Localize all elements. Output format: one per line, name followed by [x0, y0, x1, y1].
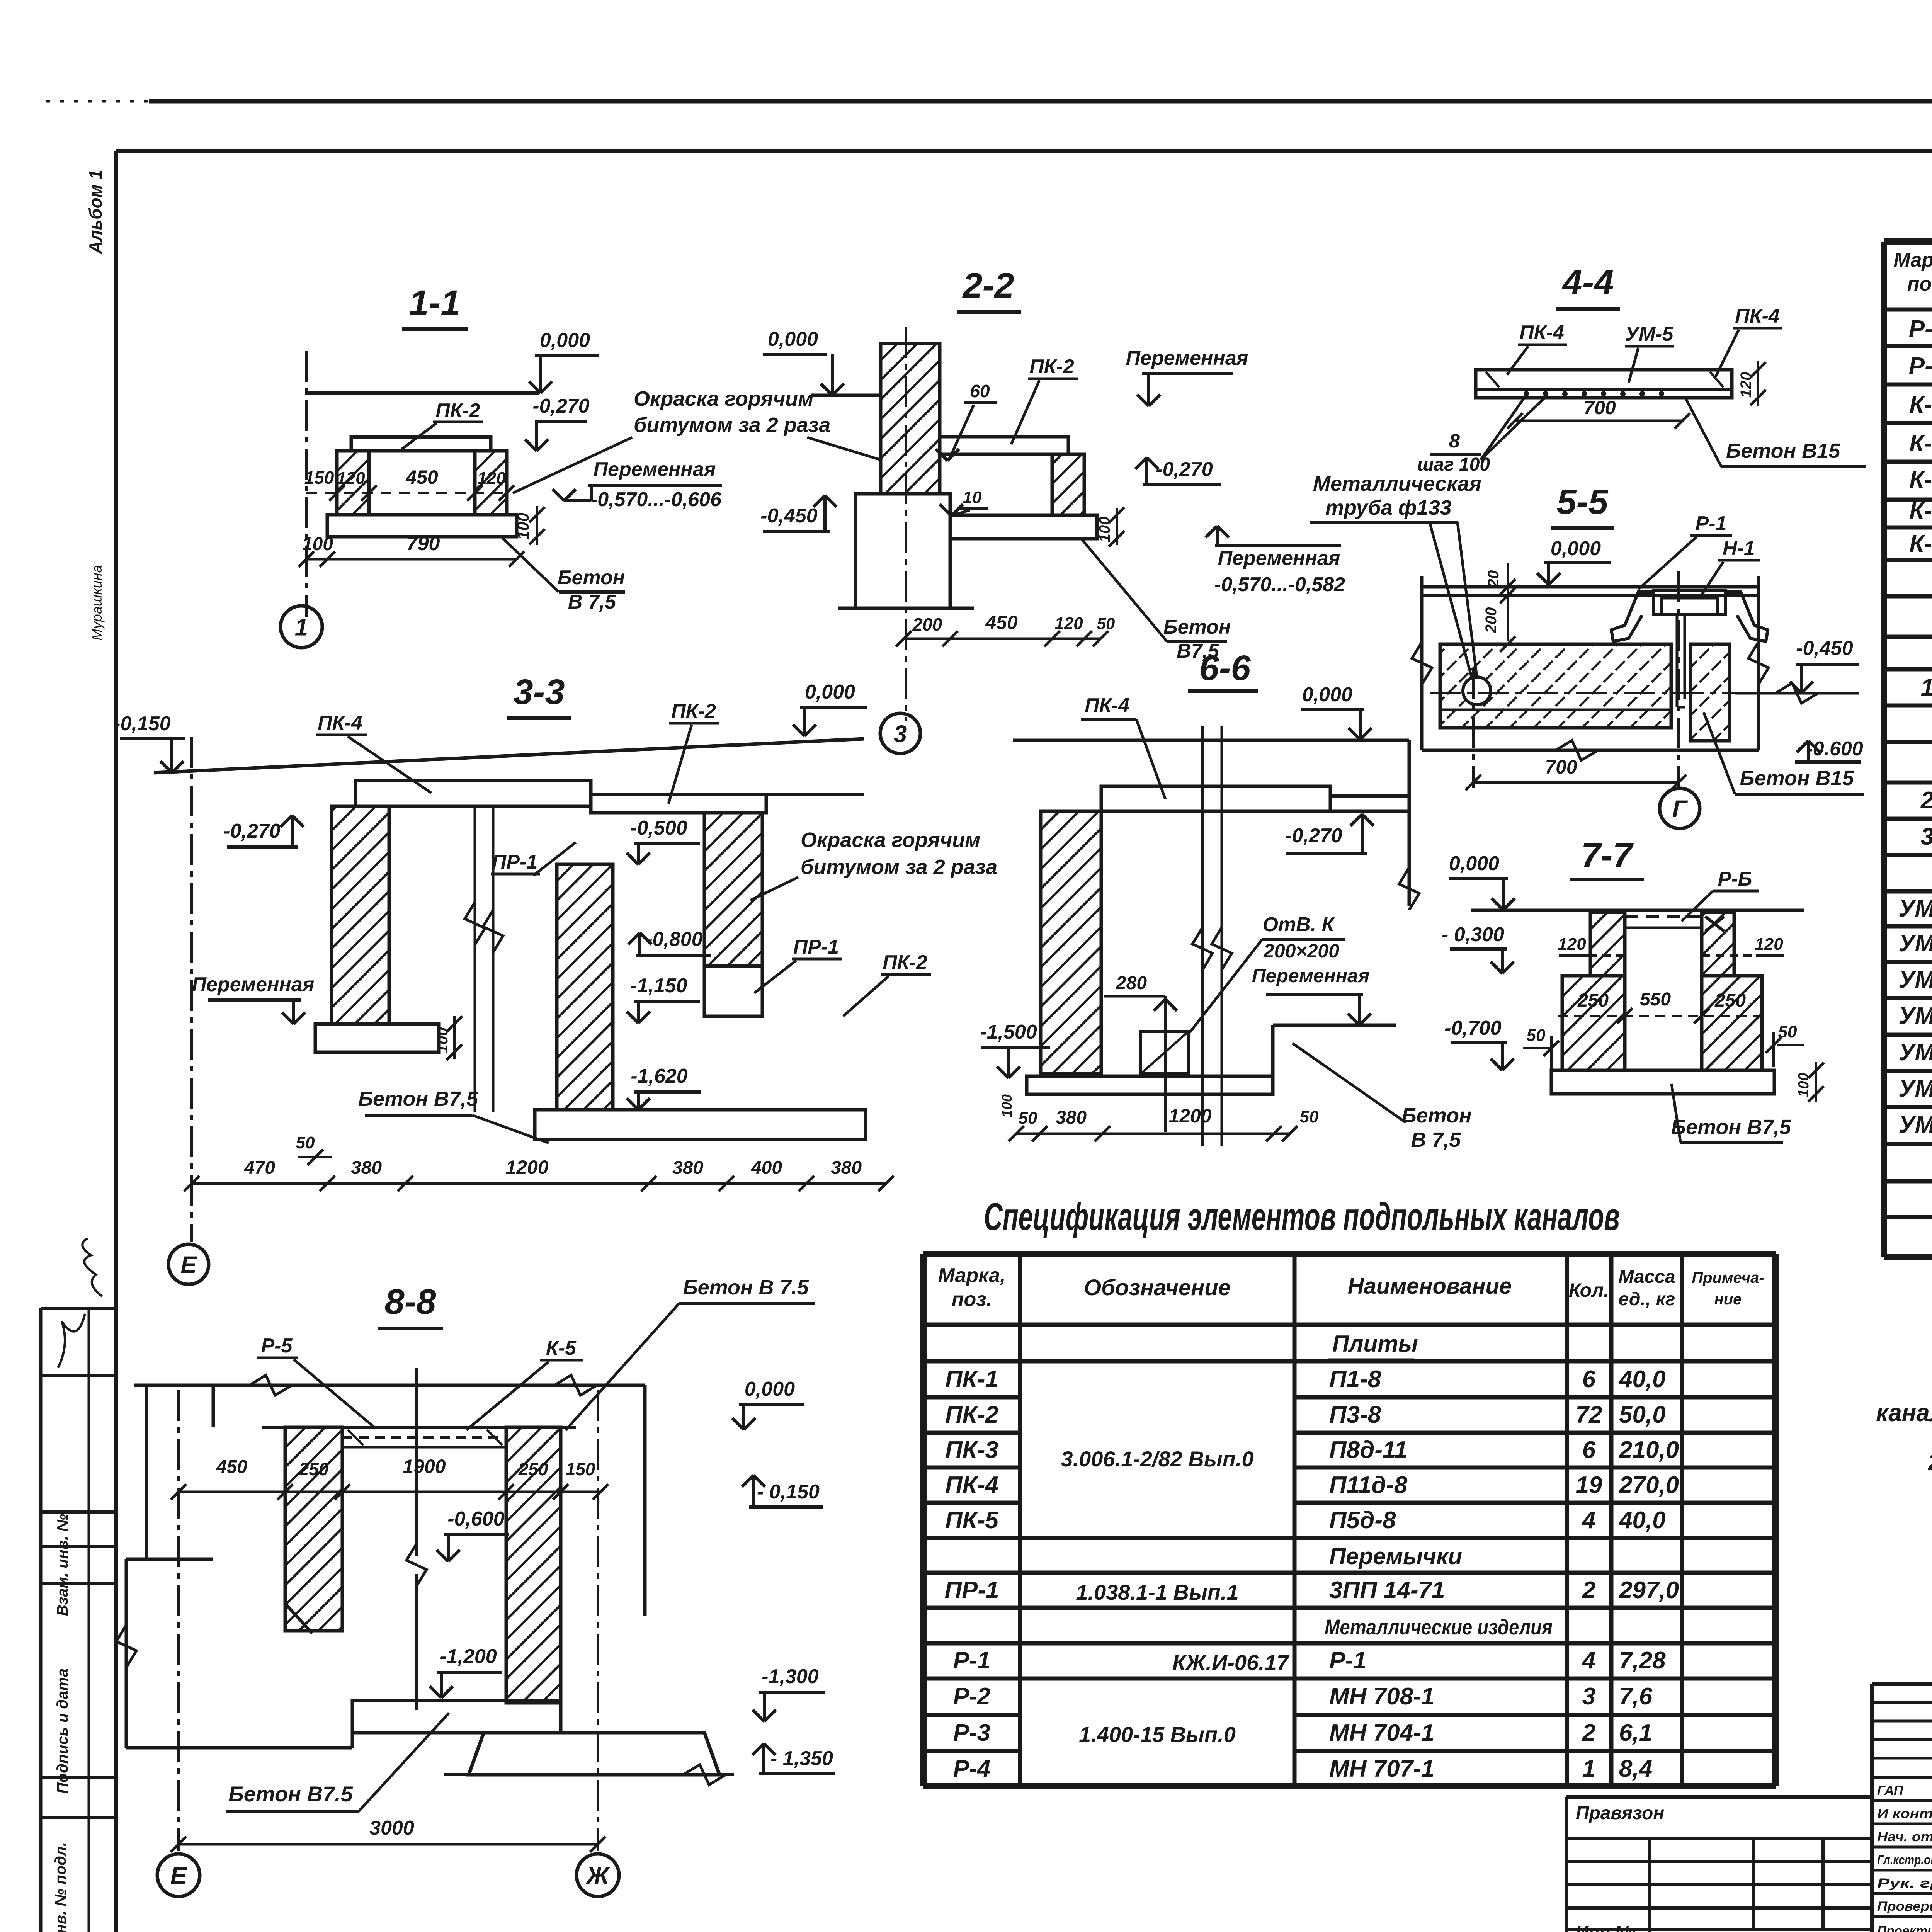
dim line 200 450 120 50 (2-2) [904, 638, 1100, 640]
svg-text:Масса: Масса [1618, 1267, 1675, 1287]
svg-text:150: 150 [566, 1459, 595, 1479]
svg-text:Бетон В7,5: Бетон В7,5 [358, 1087, 478, 1111]
svg-text:УМ-5: УМ-5 [1625, 323, 1674, 345]
svg-text:210,0: 210,0 [1619, 1437, 1679, 1463]
svg-text:ПК-4: ПК-4 [318, 712, 362, 734]
svg-text:790: 790 [406, 532, 440, 555]
svg-text:Бетон В15: Бетон В15 [1740, 767, 1854, 790]
axis circle 3 [880, 713, 920, 753]
svg-text:2: 2 [1920, 787, 1932, 814]
svg-text:380: 380 [1056, 1107, 1087, 1128]
svg-text:Н-1: Н-1 [1723, 537, 1755, 560]
axis circle 1 [281, 606, 322, 648]
svg-text:2. Расход арматуры на армопере: 2. Расход арматуры на армоперемычки ф6-А… [1928, 1449, 1932, 1476]
svg-text:270,0: 270,0 [1619, 1472, 1679, 1498]
svg-text:7-7: 7-7 [1581, 836, 1634, 875]
svg-text:0,000: 0,000 [1449, 852, 1499, 875]
svg-text:Р-2: Р-2 [953, 1683, 990, 1710]
svg-text:Инв. № подл.: Инв. № подл. [52, 1842, 69, 1932]
svg-text:К-4: К-4 [1909, 497, 1932, 524]
svg-text:Мурашкина: Мурашкина [89, 565, 105, 640]
svg-text:Подпись и дата: Подпись и дата [54, 1668, 71, 1794]
svg-text:Бетон В15: Бетон В15 [1726, 439, 1840, 463]
bottom slab (6-6) [1027, 1076, 1273, 1094]
svg-text:3: 3 [1582, 1683, 1595, 1710]
column axis (2-2) [905, 327, 907, 721]
right wall hatched (1-1) [475, 451, 507, 515]
svg-text:-0,570...-0,606: -0,570...-0,606 [591, 488, 722, 511]
bottom dim (6-6) [1016, 1133, 1290, 1135]
axis line E (3-3) [190, 737, 193, 1242]
svg-text:Р-Б: Р-Б [1718, 868, 1752, 890]
left hook clamp (5-5) [1611, 592, 1653, 641]
svg-text:-0,270: -0,270 [1156, 458, 1213, 481]
svg-text:Ж: Ж [585, 1862, 611, 1889]
svg-text:50: 50 [1300, 1107, 1319, 1126]
pipe axis (5-5) [1430, 692, 1735, 694]
svg-text:297,0: 297,0 [1619, 1577, 1679, 1604]
svg-text:10: 10 [963, 488, 982, 507]
svg-text:Переменная: Переменная [1126, 347, 1248, 369]
svg-text:380: 380 [672, 1158, 703, 1178]
svg-text:Е: Е [180, 1252, 197, 1278]
svg-text:Альбом 1: Альбом 1 [85, 170, 105, 254]
svg-text:И контр.: И контр. [1877, 1806, 1932, 1821]
svg-text:8: 8 [1449, 430, 1460, 452]
svg-text:4: 4 [1582, 1647, 1595, 1674]
inner level dashed (1-1) [306, 492, 507, 494]
svg-text:0,000: 0,000 [745, 1378, 795, 1400]
svg-text:6: 6 [1582, 1366, 1596, 1393]
axis E (8-8) [177, 1390, 180, 1851]
svg-text:П5д-8: П5д-8 [1329, 1507, 1396, 1534]
svg-text:Р-1: Р-1 [1696, 512, 1727, 535]
svg-text:УМ-1: УМ-1 [1899, 895, 1932, 922]
svg-text:Е: Е [170, 1862, 188, 1889]
svg-text:19: 19 [1576, 1472, 1602, 1498]
svg-text:ПК-2: ПК-2 [671, 700, 716, 723]
svg-text:0,000: 0,000 [540, 329, 590, 352]
svg-text:Инв.№: Инв.№ [1576, 1922, 1635, 1932]
svg-text:Р-5: Р-5 [1909, 316, 1932, 342]
svg-text:100: 100 [514, 513, 532, 540]
right wall hatched (2-2) [1052, 454, 1084, 515]
svg-text:ед., кг: ед., кг [1619, 1289, 1675, 1310]
svg-text:72: 72 [1576, 1401, 1602, 1428]
svg-text:Наименование: Наименование [1348, 1274, 1512, 1299]
svg-text:40,0: 40,0 [1618, 1366, 1666, 1393]
pipe circle (5-5) [1463, 677, 1491, 705]
svg-text:УМ-6: УМ-6 [1899, 1075, 1932, 1102]
svg-text:7,28: 7,28 [1619, 1647, 1666, 1674]
svg-text:МН 707-1: МН 707-1 [1329, 1755, 1434, 1782]
plate R-B dashed (7-7) [1625, 915, 1702, 918]
svg-text:Рук. гр.: Рук. гр. [1877, 1876, 1932, 1891]
svg-text:250: 250 [1577, 990, 1609, 1011]
svg-text:Спецификация элементов подполь: Спецификация элементов подпольных канало… [984, 1195, 1620, 1238]
svg-text:120: 120 [1755, 935, 1783, 954]
svg-text:ПК-2: ПК-2 [883, 951, 927, 974]
svg-text:Примеча-: Примеча- [1692, 1269, 1764, 1286]
svg-text:20: 20 [1485, 570, 1502, 588]
plate PK-2 (3-3) [591, 794, 766, 813]
svg-text:К-5: К-5 [1909, 531, 1932, 557]
svg-text:Р-3: Р-3 [953, 1719, 990, 1746]
svg-text:К-1: К-1 [1909, 391, 1932, 418]
svg-text:Обозначение: Обозначение [1084, 1275, 1231, 1300]
svg-text:Бетон: Бетон [1163, 616, 1231, 638]
svg-text:-0,800: -0,800 [646, 928, 703, 951]
svg-text:поз.: поз. [1907, 273, 1932, 295]
svg-text:Гл.кстр.отд: Гл.кстр.отд [1877, 1853, 1932, 1867]
svg-text:К-2: К-2 [1909, 430, 1932, 457]
right step (6-6) [1273, 1024, 1396, 1027]
svg-text:-0,500: -0,500 [630, 817, 687, 839]
top plate PK-2 (1-1) [351, 437, 491, 451]
svg-text:УМ-2: УМ-2 [1899, 930, 1932, 957]
svg-text:-0,700: -0,700 [1444, 1017, 1502, 1039]
svg-text:Перемычки: Перемычки [1329, 1543, 1462, 1569]
svg-text:3000: 3000 [369, 1817, 414, 1839]
svg-text:120: 120 [477, 469, 506, 488]
svg-text:60: 60 [970, 381, 990, 401]
svg-text:ПК-4: ПК-4 [945, 1472, 998, 1498]
svg-text:3.006.1-2/82 Вып.0: 3.006.1-2/82 Вып.0 [1061, 1447, 1253, 1471]
svg-text:50: 50 [1527, 1026, 1546, 1045]
svg-text:Окраска горячим: Окраска горячим [634, 387, 813, 410]
svg-text:поз.: поз. [952, 1288, 992, 1311]
svg-text:120: 120 [1054, 614, 1083, 633]
svg-text:1.038.1-1 Вып.1: 1.038.1-1 Вып.1 [1076, 1580, 1238, 1604]
svg-text:250: 250 [518, 1459, 548, 1479]
svg-text:УМ-3: УМ-3 [1899, 966, 1932, 993]
svg-text:380: 380 [831, 1158, 862, 1178]
svg-text:2-2: 2-2 [962, 266, 1014, 305]
svg-text:МН 708-1: МН 708-1 [1329, 1683, 1434, 1710]
anchor line K-1 (5-5) [1676, 614, 1679, 707]
ground line 1-1 [305, 391, 539, 395]
svg-text:Р-6: Р-6 [1909, 353, 1932, 379]
svg-text:Бетон: Бетон [1401, 1104, 1471, 1127]
right table grid horizontals [1884, 238, 1932, 245]
svg-text:4: 4 [1582, 1507, 1595, 1534]
svg-text:ние: ние [1714, 1291, 1742, 1308]
svg-text:ОтВ. К: ОтВ. К [1262, 913, 1335, 936]
svg-text:В 7,5: В 7,5 [1411, 1128, 1461, 1151]
svg-text:Правязон: Правязон [1576, 1803, 1664, 1823]
top double line (5-5) [1422, 585, 1759, 589]
right edge line (6-6) [1408, 740, 1411, 906]
svg-text:Р-1: Р-1 [953, 1647, 990, 1674]
wall break lines (3-3) [474, 806, 476, 1112]
svg-text:200: 200 [1483, 607, 1500, 634]
svg-text:Переменная: Переменная [594, 458, 716, 481]
svg-text:7,6: 7,6 [1619, 1683, 1653, 1710]
svg-text:УМ-7: УМ-7 [1899, 1112, 1932, 1138]
svg-text:-0.600: -0.600 [1806, 738, 1863, 760]
svg-text:Г: Г [1672, 796, 1688, 822]
svg-text:3ПП 14-71: 3ПП 14-71 [1329, 1577, 1445, 1604]
svg-text:6-6: 6-6 [1199, 648, 1251, 688]
svg-text:ПК-4: ПК-4 [1085, 694, 1129, 717]
right hook clamp (5-5) [1726, 592, 1768, 641]
title block signature table [1870, 1684, 1874, 1932]
top plate (6-6) [1101, 786, 1330, 811]
svg-text:ПК-3: ПК-3 [945, 1437, 998, 1463]
svg-text:К-3: К-3 [1909, 466, 1932, 493]
right wall line (8-8) [643, 1385, 647, 1616]
svg-text:Марка,: Марка, [1894, 249, 1932, 271]
svg-text:3: 3 [1921, 823, 1932, 850]
svg-text:1: 1 [1582, 1755, 1595, 1782]
svg-text:8,4: 8,4 [1619, 1755, 1652, 1782]
svg-text:Плиты: Плиты [1332, 1331, 1418, 1357]
svg-text:50: 50 [1019, 1109, 1037, 1128]
svg-text:250: 250 [299, 1459, 329, 1479]
svg-text:-0,570...-0,582: -0,570...-0,582 [1214, 573, 1345, 596]
foundation block (2-2) [855, 494, 950, 608]
svg-text:-1,150: -1,150 [630, 975, 687, 997]
svg-text:ПК-4: ПК-4 [1735, 305, 1780, 327]
svg-text:битумом за 2 раза: битумом за 2 раза [634, 413, 830, 437]
sheet border frame [46, 100, 149, 103]
svg-text:700: 700 [1545, 756, 1577, 778]
svg-text:УМ-4: УМ-4 [1899, 1003, 1932, 1029]
svg-text:0,000: 0,000 [1551, 537, 1601, 560]
svg-text:1-1: 1-1 [409, 283, 461, 323]
right wall hatched (3-3) [704, 813, 762, 966]
svg-text:40,0: 40,0 [1618, 1507, 1666, 1534]
middle break pair (6-6) [1201, 726, 1204, 1146]
svg-text:Взам. инв. №: Взам. инв. № [54, 1514, 71, 1616]
svg-text:1200: 1200 [1168, 1105, 1211, 1127]
dim line 100 790 (1-1) [306, 558, 517, 561]
svg-text:ГАП: ГАП [1877, 1783, 1904, 1798]
svg-text:3: 3 [894, 721, 907, 747]
svg-text:Р-4: Р-4 [953, 1755, 990, 1782]
svg-text:100: 100 [302, 534, 333, 554]
svg-text:150: 150 [304, 468, 334, 488]
svg-text:ПР-1: ПР-1 [944, 1577, 999, 1604]
plate PK-2 (2-2) [940, 437, 1068, 454]
upper walls (7-7) [1590, 912, 1625, 976]
svg-text:-1,300: -1,300 [762, 1665, 819, 1688]
right table grid verticals [1881, 241, 1887, 1257]
svg-text:Проверил: Проверил [1877, 1899, 1932, 1914]
ground line (6-6) [1013, 739, 1409, 742]
svg-text:К-5: К-5 [546, 1337, 577, 1359]
lower walls (7-7) [1562, 976, 1625, 1070]
svg-text:П8д-11: П8д-11 [1329, 1437, 1407, 1463]
svg-text:ПК-5: ПК-5 [945, 1507, 999, 1534]
svg-text:МН 704-1: МН 704-1 [1329, 1719, 1434, 1746]
svg-text:280: 280 [1116, 973, 1147, 993]
svg-text:-1,620: -1,620 [631, 1065, 688, 1087]
svg-text:Бетон: Бетон [558, 566, 625, 589]
cover plates row (8-8) [262, 1426, 576, 1429]
svg-text:450: 450 [405, 466, 438, 488]
bottom dim line (3-3) [192, 1182, 886, 1185]
section 1-1 axis line [305, 351, 308, 617]
dim 700 (4-4) [1515, 420, 1682, 422]
ground line bottom (5-5) [1422, 749, 1759, 752]
bottom slab (1-1) [327, 515, 517, 537]
ground line left of column (2-2) [811, 394, 881, 397]
left bottom slab (3-3) [315, 1024, 439, 1052]
svg-text:Металлические изделия: Металлические изделия [1325, 1615, 1553, 1639]
svg-text:-1,500: -1,500 [980, 1021, 1037, 1043]
ground line (7-7) [1471, 909, 1804, 912]
slab hatched B15 (5-5) [1440, 644, 1671, 728]
svg-text:120: 120 [337, 469, 365, 488]
svg-text:ПК-2: ПК-2 [945, 1401, 998, 1428]
svg-text:Р-5: Р-5 [261, 1335, 293, 1357]
slab 4-4 [1476, 370, 1732, 398]
svg-text:8-8: 8-8 [385, 1282, 437, 1321]
svg-text:Нач. отд.: Нач. отд. [1877, 1830, 1932, 1844]
svg-text:Бетон В 7.5: Бетон В 7.5 [683, 1276, 809, 1299]
svg-text:ПК-4: ПК-4 [1519, 321, 1564, 344]
opening box (6-6) [1141, 1031, 1189, 1074]
peremennaya level 2 (2-2) [1216, 526, 1219, 546]
left wall hatched (1-1) [337, 451, 369, 515]
svg-text:380: 380 [351, 1158, 382, 1178]
svg-text:1.400-15 Вып.0: 1.400-15 Вып.0 [1079, 1722, 1236, 1747]
left wall hatched (6-6) [1041, 811, 1101, 1074]
dim 700 (5-5) [1473, 781, 1679, 784]
svg-text:4-4: 4-4 [1562, 263, 1614, 302]
svg-text:120: 120 [1558, 935, 1586, 954]
svg-text:1: 1 [1921, 674, 1932, 701]
svg-text:- 1,350: - 1,350 [770, 1747, 833, 1770]
title block left extension [1566, 1795, 1872, 1799]
left hatched wall (8-8) [285, 1427, 342, 1631]
svg-text:-0,450: -0,450 [760, 505, 818, 527]
svg-text:Бетон В7.5: Бетон В7.5 [228, 1782, 353, 1806]
column hatched (2-2) [881, 344, 940, 494]
middle wall hatched (3-3) [557, 864, 613, 1110]
svg-text:0,000: 0,000 [1302, 684, 1352, 706]
svg-text:-1,200: -1,200 [440, 1645, 497, 1668]
bottom slab (7-7) [1551, 1070, 1774, 1094]
svg-text:200×200: 200×200 [1263, 940, 1339, 962]
svg-text:каналов и выборку стали: каналов и выборку стали смотри лист 9. [1876, 1399, 1932, 1427]
svg-text:ПК-2: ПК-2 [1029, 355, 1074, 378]
svg-text:В 7,5: В 7,5 [568, 591, 616, 613]
svg-text:Р-1: Р-1 [1329, 1647, 1366, 1674]
bottom slab (2-2) [950, 515, 1097, 539]
svg-text:2: 2 [1582, 1577, 1595, 1604]
right bottom slab (3-3) [535, 1110, 866, 1139]
svg-text:0,000: 0,000 [768, 328, 818, 350]
svg-text:ПК-1: ПК-1 [945, 1366, 998, 1393]
plate PK-4 (3-3) [355, 781, 591, 806]
svg-text:50: 50 [1097, 614, 1115, 633]
svg-text:6,1: 6,1 [1619, 1719, 1652, 1746]
svg-text:Кол.: Кол. [1569, 1279, 1609, 1301]
svg-text:450: 450 [216, 1457, 247, 1477]
svg-text:ПР-1: ПР-1 [793, 936, 839, 958]
svg-text:Марка,: Марка, [938, 1264, 1006, 1287]
svg-text:3-3: 3-3 [514, 672, 565, 712]
right wall hatched B15 (5-5) [1690, 644, 1730, 741]
svg-text:битумом за 2 раза: битумом за 2 раза [801, 855, 997, 879]
svg-text:1900: 1900 [403, 1456, 446, 1477]
svg-text:250: 250 [1714, 990, 1746, 1011]
svg-text:- 0,150: - 0,150 [757, 1481, 820, 1503]
svg-text:-0,270: -0,270 [1285, 825, 1342, 847]
svg-text:П11д-8: П11д-8 [1329, 1472, 1408, 1498]
channel cover plate R-1 (5-5) [1654, 590, 1725, 614]
svg-text:-0,270: -0,270 [532, 395, 590, 417]
svg-text:50: 50 [296, 1133, 315, 1152]
axis Zh (8-8) [597, 1390, 599, 1851]
svg-text:П1-8: П1-8 [1329, 1366, 1381, 1393]
channel floor slab (8-8) [352, 1701, 561, 1733]
svg-text:470: 470 [244, 1158, 275, 1178]
ceiling line (8-8) [134, 1384, 645, 1387]
svg-text:УМ-5: УМ-5 [1899, 1039, 1932, 1066]
svg-text:Переменная: Переменная [1252, 965, 1370, 986]
svg-text:ПК-2: ПК-2 [435, 400, 480, 422]
svg-text:Металлическая: Металлическая [1313, 472, 1481, 495]
svg-text:труба ф133: труба ф133 [1325, 496, 1452, 519]
svg-text:50,0: 50,0 [1619, 1401, 1666, 1428]
svg-text:1: 1 [295, 614, 308, 641]
svg-text:КЖ.И-06.17: КЖ.И-06.17 [1172, 1650, 1290, 1675]
svg-text:100: 100 [999, 1094, 1015, 1117]
svg-text:5-5: 5-5 [1557, 482, 1609, 522]
svg-text:ПР-1: ПР-1 [492, 851, 537, 873]
bottom strip (5-5) [1440, 709, 1671, 711]
level -0,600 (5-5) [1797, 741, 1808, 752]
svg-text:6: 6 [1582, 1437, 1596, 1463]
svg-text:-0,150: -0,150 [114, 713, 171, 735]
svg-text:-0,450: -0,450 [1796, 637, 1853, 660]
svg-text:2: 2 [1582, 1719, 1595, 1746]
pipe axis center (8-8) [415, 1368, 418, 1556]
right hatched wall (8-8) [506, 1427, 561, 1703]
left wall hatched (3-3) [332, 806, 389, 1024]
svg-text:0,000: 0,000 [805, 681, 855, 703]
svg-text:550: 550 [1640, 989, 1671, 1010]
svg-text:П3-8: П3-8 [1329, 1401, 1381, 1428]
svg-text:Переменная: Переменная [192, 973, 315, 996]
svg-text:- 0,300: - 0,300 [1442, 923, 1504, 946]
sloped ground line (3-3) [154, 739, 864, 773]
left margin stamp column [39, 1308, 43, 1932]
svg-text:Окраска горячим: Окраска горячим [801, 828, 980, 852]
svg-text:700: 700 [1583, 397, 1616, 418]
central table grid [920, 1254, 927, 1786]
left wall (8-8) [145, 1385, 148, 1559]
svg-text:Бетон В7,5: Бетон В7,5 [1671, 1116, 1791, 1139]
axis circle G (5-5) [1660, 788, 1700, 828]
svg-text:200: 200 [912, 614, 942, 634]
svg-text:-0,600: -0,600 [447, 1508, 505, 1530]
foundation trapezoid (8-8) [469, 1733, 719, 1775]
svg-text:Переменная: Переменная [1218, 547, 1340, 570]
svg-text:400: 400 [751, 1158, 782, 1178]
svg-text:-0,270: -0,270 [223, 820, 281, 842]
svg-text:1200: 1200 [505, 1156, 548, 1178]
svg-text:Проектир.: Проектир. [1877, 1923, 1932, 1932]
svg-text:450: 450 [985, 612, 1018, 633]
